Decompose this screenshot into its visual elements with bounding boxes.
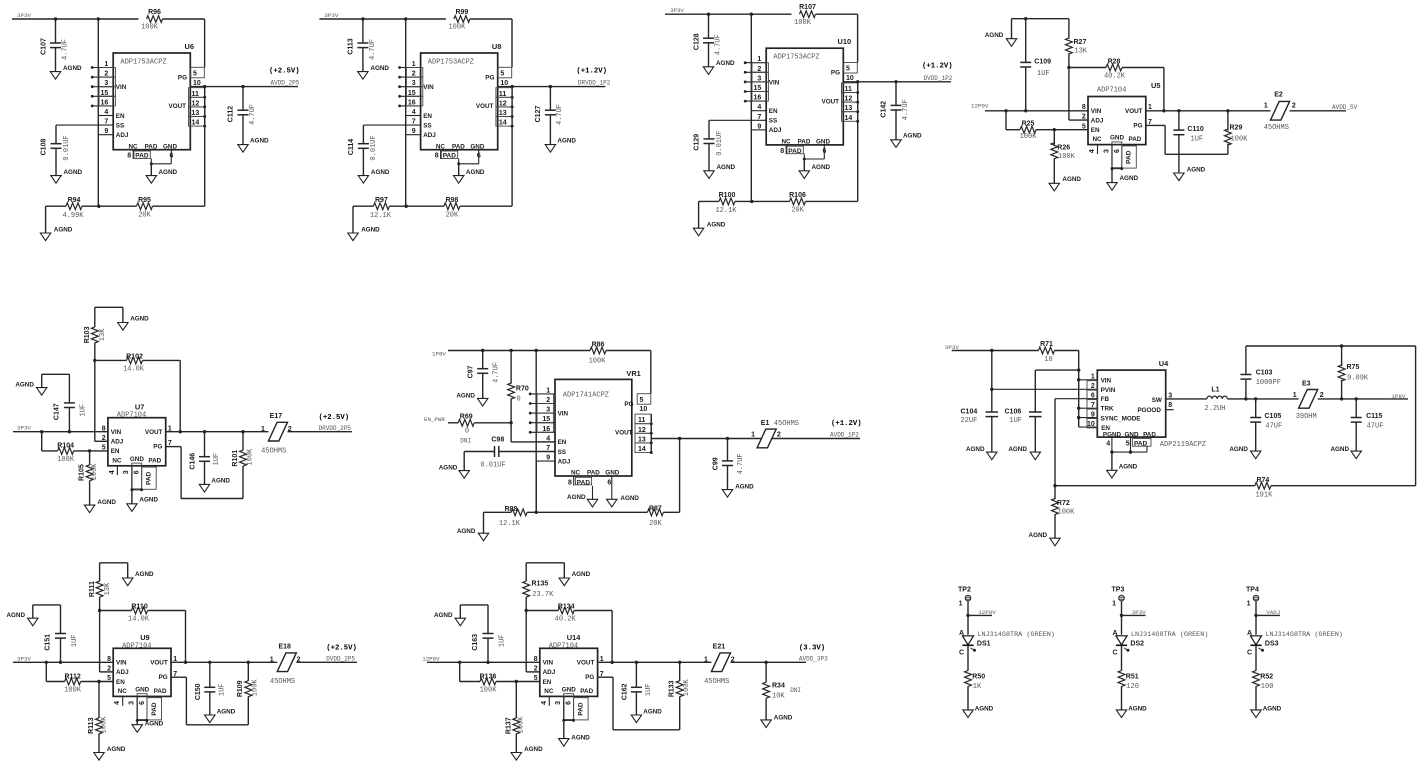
svg-text:ADJ: ADJ [423,132,436,139]
svg-text:AGND: AGND [1062,176,1081,183]
svg-text:11: 11 [638,417,646,424]
svg-text:R134: R134 [558,603,575,610]
svg-text:AGND: AGND [361,227,380,234]
svg-text:R112: R112 [64,673,80,680]
svg-text:C107: C107 [40,38,47,55]
svg-text:100K: 100K [1058,509,1076,517]
svg-text:VOUT: VOUT [476,103,494,110]
svg-text:(3.3V): (3.3V) [799,644,825,652]
svg-text:R136: R136 [480,673,497,680]
svg-text:EN: EN [116,679,125,686]
svg-text:AGND: AGND [457,528,476,535]
svg-text:DVDD_1P2: DVDD_1P2 [924,75,953,82]
svg-text:EN: EN [543,679,552,686]
svg-text:3P3V: 3P3V [670,7,684,14]
svg-text:AGND: AGND [15,381,34,388]
svg-text:AGND: AGND [107,746,126,753]
svg-text:C114: C114 [348,139,355,155]
svg-text:16: 16 [101,99,109,106]
svg-text:R133: R133 [669,680,676,697]
svg-text:GND: GND [1110,135,1124,142]
svg-text:1: 1 [1247,601,1251,608]
svg-text:R103: R103 [84,326,91,343]
svg-text:U5: U5 [1151,81,1160,90]
svg-text:2: 2 [731,657,735,664]
svg-text:ADJ: ADJ [111,439,124,446]
svg-text:7: 7 [104,119,108,126]
svg-text:ADP7104: ADP7104 [549,642,578,650]
svg-text:C97: C97 [467,365,474,378]
svg-text:DNI: DNI [790,687,801,694]
svg-text:C151: C151 [44,634,51,651]
svg-text:PGOOD: PGOOD [1137,407,1161,414]
svg-text:AGND: AGND [139,496,158,503]
svg-text:R137: R137 [505,717,512,734]
svg-text:AGND: AGND [1128,706,1147,713]
svg-text:1K: 1K [973,683,982,691]
svg-text:7: 7 [1091,402,1095,409]
svg-text:ADP7104: ADP7104 [1097,87,1126,95]
svg-text:ADP2119ACPZ: ADP2119ACPZ [1160,441,1206,449]
svg-text:C103: C103 [1256,370,1273,377]
svg-text:PAD: PAD [452,143,465,150]
svg-text:5: 5 [640,397,644,404]
svg-text:NC: NC [112,457,122,464]
svg-text:PG: PG [153,444,162,451]
svg-text:2: 2 [104,71,108,78]
svg-text:VIN: VIN [116,84,127,91]
svg-text:2: 2 [757,66,761,73]
svg-text:3: 3 [546,407,550,414]
svg-text:AGND: AGND [250,137,269,144]
svg-text:PAD: PAD [146,471,153,485]
svg-text:C113: C113 [348,38,355,54]
svg-text:PAD: PAD [145,143,158,150]
svg-text:AGND: AGND [716,60,735,67]
svg-text:2: 2 [1091,383,1095,390]
svg-text:(+1.2V): (+1.2V) [922,63,953,71]
svg-text:AGND: AGND [1263,706,1282,713]
svg-text:6: 6 [566,701,573,705]
svg-text:DS3: DS3 [1265,641,1279,648]
svg-text:AGND: AGND [1008,446,1027,453]
svg-text:PAD: PAD [135,153,149,160]
svg-text:AGND: AGND [975,706,994,713]
svg-text:100K: 100K [246,448,254,466]
svg-text:R106: R106 [789,192,806,199]
svg-text:R86: R86 [592,341,605,348]
svg-text:C115: C115 [1366,413,1382,420]
svg-text:C98: C98 [491,437,504,444]
svg-text:100K: 100K [794,19,812,27]
svg-text:12: 12 [845,96,853,103]
svg-text:TRK: TRK [1101,406,1114,413]
svg-text:R111: R111 [89,581,96,597]
svg-text:AGND: AGND [966,446,985,453]
svg-text:6: 6 [607,479,611,486]
svg-text:100K: 100K [1058,153,1076,161]
svg-text:12: 12 [192,100,200,107]
svg-text:ADJ: ADJ [769,127,782,134]
svg-text:U8: U8 [492,42,501,51]
svg-text:PG: PG [485,75,494,82]
svg-text:3P3V: 3P3V [1132,609,1146,616]
svg-text:C104: C104 [961,409,978,416]
svg-text:NC: NC [1093,136,1103,143]
svg-text:VIN: VIN [1101,377,1112,384]
svg-text:R98: R98 [445,197,458,204]
svg-text:PVIN: PVIN [1101,387,1116,394]
svg-text:13K: 13K [104,582,112,595]
svg-text:14: 14 [192,120,200,127]
svg-text:7: 7 [757,114,761,121]
svg-text:ADJ: ADJ [558,458,571,465]
svg-text:11: 11 [845,86,853,93]
svg-text:AGND: AGND [903,133,922,140]
svg-text:PAD: PAD [1129,136,1142,143]
svg-text:100K: 100K [448,24,466,32]
svg-text:12.1K: 12.1K [715,207,737,215]
svg-text:R97: R97 [375,197,388,204]
svg-text:R51: R51 [1126,673,1139,680]
svg-text:PAD: PAD [798,139,811,146]
svg-text:47UF: 47UF [1367,423,1384,431]
svg-text:7: 7 [412,119,416,126]
svg-text:R87: R87 [649,506,662,513]
svg-text:R102: R102 [126,353,143,360]
svg-text:R94: R94 [68,197,81,204]
svg-text:9: 9 [757,123,761,130]
svg-text:12.1K: 12.1K [499,520,521,528]
svg-text:1: 1 [1148,104,1152,111]
svg-text:DRVDD_1P2: DRVDD_1P2 [578,80,611,87]
svg-text:2: 2 [288,426,292,433]
svg-text:R28: R28 [1108,58,1121,65]
svg-text:8: 8 [102,425,106,432]
svg-text:AGND: AGND [371,169,390,176]
svg-text:3: 3 [1103,149,1110,153]
svg-text:191K: 191K [1255,491,1273,499]
svg-text:C109: C109 [1034,58,1051,65]
svg-text:0.01UF: 0.01UF [480,462,505,470]
svg-text:R74: R74 [1256,477,1269,484]
svg-text:2: 2 [1292,103,1296,110]
svg-text:1UF: 1UF [80,404,88,417]
svg-text:ADP7104: ADP7104 [117,412,146,420]
svg-text:R95: R95 [138,197,151,204]
svg-text:ADP1753ACPZ: ADP1753ACPZ [120,58,166,66]
svg-text:VOUT: VOUT [150,660,168,667]
svg-text:VOUT: VOUT [169,103,187,110]
svg-text:100K: 100K [589,358,607,366]
svg-text:4.99K: 4.99K [62,212,84,220]
svg-text:C127: C127 [535,106,542,123]
svg-text:AGND: AGND [1029,532,1048,539]
svg-text:8: 8 [107,656,111,663]
svg-text:4.7UF: 4.7UF [737,453,745,474]
svg-text:C146: C146 [190,453,197,470]
svg-text:PAD: PAD [788,148,802,155]
svg-text:DRVDD_2P5: DRVDD_2P5 [319,425,352,432]
svg-text:C110: C110 [1187,126,1203,133]
svg-text:PAD: PAD [580,688,593,695]
svg-text:4.7UF: 4.7UF [715,34,723,55]
svg-text:100K: 100K [518,716,526,734]
svg-text:45OHMS: 45OHMS [774,420,799,428]
svg-text:8: 8 [1168,402,1172,409]
svg-text:TP4: TP4 [1246,586,1259,593]
svg-text:9: 9 [1091,411,1095,418]
svg-text:1: 1 [270,657,274,664]
svg-text:1UF: 1UF [1009,417,1022,425]
svg-text:PAD: PAD [577,479,591,486]
svg-text:10: 10 [1044,356,1052,364]
svg-text:GND: GND [1125,432,1139,439]
svg-text:EN: EN [558,439,567,446]
svg-text:45OHMS: 45OHMS [1264,124,1289,132]
svg-text:GND: GND [562,687,576,694]
svg-text:AGND: AGND [211,478,230,485]
svg-text:R50: R50 [972,673,985,680]
svg-text:U4: U4 [1159,359,1169,368]
svg-text:15: 15 [754,85,762,92]
svg-text:0.01UF: 0.01UF [370,135,378,160]
svg-text:VIN: VIN [769,79,780,86]
svg-text:VOUT: VOUT [822,98,840,105]
svg-text:E1: E1 [761,420,770,427]
svg-text:PG: PG [831,70,840,77]
svg-text:5: 5 [500,71,504,78]
svg-text:R88: R88 [505,506,518,513]
svg-text:AGND: AGND [735,483,754,490]
svg-text:EN: EN [1091,127,1100,134]
svg-text:16: 16 [754,95,762,102]
svg-text:GND: GND [130,456,144,463]
svg-text:ADJ: ADJ [1091,117,1104,124]
svg-text:PAD: PAD [577,702,584,716]
svg-text:VR1: VR1 [626,369,640,378]
svg-text:R104: R104 [57,443,74,450]
svg-text:NC: NC [571,470,581,477]
svg-text:10: 10 [500,80,508,87]
svg-text:PG: PG [1133,122,1142,129]
svg-text:1: 1 [959,601,963,608]
svg-text:SW: SW [1152,397,1162,404]
svg-text:R26: R26 [1057,144,1070,151]
svg-text:(+2.5V): (+2.5V) [326,644,357,652]
svg-text:R69: R69 [460,413,473,420]
svg-text:R105: R105 [79,464,86,481]
svg-text:FB: FB [1101,396,1110,403]
svg-text:6: 6 [134,470,141,474]
svg-text:NC: NC [544,688,554,695]
svg-text:AGND: AGND [54,227,73,234]
svg-text:4.7UF: 4.7UF [902,99,910,120]
svg-text:45OHMS: 45OHMS [704,678,729,686]
svg-text:1: 1 [704,657,708,664]
svg-text:(+1.2V): (+1.2V) [576,68,607,76]
svg-text:NC: NC [781,139,791,146]
svg-text:1: 1 [1091,374,1095,381]
svg-text:AGND: AGND [985,32,1004,39]
svg-text:1: 1 [104,61,108,68]
svg-text:1: 1 [751,432,755,439]
svg-text:VIN: VIN [1091,108,1102,115]
svg-text:AGND: AGND [812,164,831,171]
svg-text:ADJ: ADJ [116,669,129,676]
svg-text:AGND: AGND [434,612,453,619]
svg-text:0: 0 [517,395,521,403]
svg-text:2.2UH: 2.2UH [1205,405,1226,413]
svg-text:120: 120 [1126,683,1139,691]
svg-text:4: 4 [757,104,761,111]
svg-text:AGND: AGND [64,169,83,176]
svg-text:3P3V: 3P3V [17,655,31,662]
svg-text:GND: GND [135,687,149,694]
svg-text:VOUT: VOUT [577,660,595,667]
svg-text:100K: 100K [64,687,82,695]
svg-text:14: 14 [499,120,507,127]
svg-text:8: 8 [127,153,131,160]
svg-text:VIN: VIN [423,84,434,91]
svg-text:4.7UF: 4.7UF [369,39,377,60]
svg-text:AVDD_5V: AVDD_5V [1332,104,1358,111]
svg-text:(+1.2V): (+1.2V) [831,420,862,428]
svg-text:13: 13 [499,110,507,117]
svg-text:PG: PG [159,674,168,681]
svg-text:3P3V: 3P3V [945,344,959,351]
svg-text:E17: E17 [270,413,283,420]
svg-text:R29: R29 [1230,125,1243,132]
svg-text:4.7UF: 4.7UF [556,104,564,125]
svg-text:VIN: VIN [543,660,554,667]
svg-text:(+2.5V): (+2.5V) [269,68,300,76]
svg-text:VIN: VIN [116,660,127,667]
svg-text:PAD: PAD [1143,432,1156,439]
svg-text:1P8V: 1P8V [1391,393,1405,400]
svg-text:4: 4 [104,109,108,116]
svg-text:1UF: 1UF [1191,136,1204,144]
svg-text:AGND: AGND [63,65,82,72]
svg-text:GND: GND [816,139,830,146]
svg-text:20K: 20K [138,211,151,219]
svg-text:3P3V: 3P3V [17,12,31,19]
svg-text:U9: U9 [140,633,149,642]
svg-text:VADJ: VADJ [1266,609,1280,616]
svg-text:NC: NC [128,143,138,150]
svg-text:C106: C106 [1005,409,1022,416]
svg-text:R135: R135 [532,581,549,588]
svg-text:4.7UF: 4.7UF [493,362,501,383]
svg-text:1UF: 1UF [645,683,653,696]
svg-text:AGND: AGND [1187,166,1206,173]
svg-text:1UF: 1UF [213,453,221,466]
svg-text:14: 14 [845,115,853,122]
svg-text:R34: R34 [772,682,785,689]
svg-text:AGND: AGND [572,571,591,578]
svg-text:U14: U14 [567,633,581,642]
svg-text:10: 10 [846,75,854,82]
svg-text:C99: C99 [712,457,719,470]
svg-text:13: 13 [192,110,200,117]
svg-text:U10: U10 [838,37,852,46]
svg-text:14.0K: 14.0K [123,366,145,374]
svg-text:PG: PG [585,674,594,681]
svg-text:13K: 13K [99,328,107,341]
svg-text:SS: SS [423,122,431,129]
svg-text:14: 14 [638,446,646,453]
svg-text:E3: E3 [1302,380,1311,387]
svg-text:1: 1 [412,61,416,68]
svg-text:SS: SS [116,122,124,129]
svg-text:1UF: 1UF [71,634,79,647]
svg-text:C147: C147 [53,403,60,420]
svg-text:DNI: DNI [460,437,471,444]
svg-text:C163: C163 [472,634,479,651]
svg-text:ADP7104: ADP7104 [122,642,151,650]
svg-text:100K: 100K [141,24,159,32]
svg-text:AGND: AGND [1119,464,1138,471]
svg-text:R71: R71 [1040,341,1053,348]
svg-text:AGND: AGND [567,494,586,501]
svg-text:0.01UF: 0.01UF [716,131,724,156]
svg-text:U7: U7 [135,402,144,411]
svg-text:16: 16 [542,426,550,433]
svg-text:10: 10 [193,80,201,87]
svg-text:PAD: PAD [151,702,158,716]
svg-text:1UF: 1UF [218,683,226,696]
svg-text:13: 13 [845,105,853,112]
svg-text:1: 1 [757,56,761,63]
svg-text:VIN: VIN [558,411,569,418]
svg-text:AGND: AGND [135,571,154,578]
svg-text:6: 6 [139,701,146,705]
svg-text:AGND: AGND [1330,446,1349,453]
svg-text:AGND: AGND [1120,175,1139,182]
svg-text:PAD: PAD [587,470,600,477]
svg-text:100K: 100K [252,679,260,697]
svg-text:GND: GND [163,143,177,150]
svg-text:PAD: PAD [1134,440,1148,447]
svg-text:C112: C112 [228,106,235,122]
svg-text:EN: EN [769,108,778,115]
svg-text:DS1: DS1 [977,641,991,648]
svg-text:C128: C128 [693,33,700,50]
svg-text:AGND: AGND [130,316,149,323]
svg-text:AVDD_2P5: AVDD_2P5 [271,80,300,87]
svg-text:PAD: PAD [1126,150,1133,164]
svg-text:LNJ314G8TRA (GREEN): LNJ314G8TRA (GREEN) [977,631,1055,639]
svg-text:1P8V: 1P8V [432,351,446,358]
svg-text:5: 5 [846,66,850,73]
svg-text:AGND: AGND [717,164,736,171]
svg-text:NC: NC [436,143,446,150]
svg-text:12P0V: 12P0V [422,655,440,662]
svg-text:39OHM: 39OHM [1296,413,1317,421]
svg-text:22UF: 22UF [961,417,978,425]
svg-text:13: 13 [638,436,646,443]
svg-text:AGND: AGND [159,169,178,176]
svg-text:PG: PG [178,75,187,82]
svg-text:ADP1753ACPZ: ADP1753ACPZ [773,54,819,62]
svg-text:100K: 100K [57,456,75,464]
svg-text:15: 15 [542,416,550,423]
svg-text:LNJ314G8TRA (GREEN): LNJ314G8TRA (GREEN) [1131,631,1209,639]
svg-text:12: 12 [499,100,507,107]
svg-text:5: 5 [107,675,111,682]
svg-text:2: 2 [297,657,301,664]
svg-text:EN: EN [423,113,432,120]
